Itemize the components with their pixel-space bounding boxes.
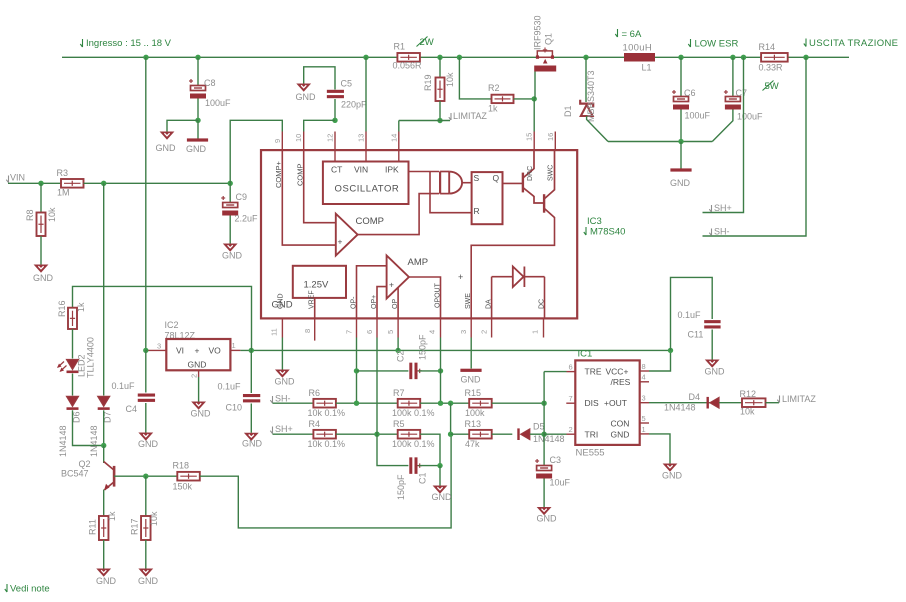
svg-text:USCITA TRAZIONE: USCITA TRAZIONE bbox=[809, 38, 898, 49]
svg-text:3: 3 bbox=[642, 394, 646, 403]
ground arrow pin 11 bbox=[276, 370, 289, 377]
wire D1 anode to ground bus bbox=[587, 116, 608, 142]
svg-text:IRF9530: IRF9530 bbox=[533, 15, 543, 50]
pin 5 stub bbox=[397, 318, 399, 337]
wire switch emitter to pin 3 bbox=[471, 217, 554, 318]
net label LOW ESR bbox=[688, 39, 690, 47]
svg-text:10: 10 bbox=[294, 134, 303, 142]
svg-text:R3: R3 bbox=[57, 168, 69, 178]
pin 11 stub bbox=[281, 318, 283, 337]
svg-text:GND: GND bbox=[138, 576, 159, 586]
wire 12V output net bbox=[240, 349, 670, 351]
wire IC2 input bbox=[146, 349, 148, 351]
ground arrow R11 bbox=[97, 569, 110, 576]
svg-text:GND: GND bbox=[242, 439, 263, 449]
svg-text:GND: GND bbox=[537, 514, 558, 524]
node pin6 row junction bbox=[374, 432, 379, 437]
wire D5 to trigger node bbox=[530, 433, 544, 435]
svg-text:R2: R2 bbox=[488, 83, 500, 93]
svg-text:S: S bbox=[474, 173, 480, 183]
resistor R6 bbox=[313, 399, 336, 408]
node C7 junction bbox=[730, 55, 735, 60]
pin 3 stub IC2 bbox=[147, 349, 166, 351]
svg-text:D5: D5 bbox=[533, 422, 545, 432]
wire crosslink verticals bbox=[450, 403, 452, 434]
wire top input/output bus bbox=[62, 56, 849, 58]
and gate bbox=[440, 172, 462, 194]
node R2 bus junction bbox=[457, 55, 462, 60]
wire R19 bottom to LIMITAZ net bbox=[439, 101, 441, 121]
pin 4 stub bbox=[440, 318, 442, 337]
node pin4 row junction bbox=[438, 401, 443, 406]
svg-text:1: 1 bbox=[531, 330, 540, 334]
pin 12 internal lead bbox=[334, 150, 336, 161]
svg-text:C3: C3 bbox=[550, 455, 562, 465]
svg-text:10k: 10k bbox=[445, 72, 455, 87]
svg-text:M78S40: M78S40 bbox=[590, 227, 625, 238]
node R14 output junction bbox=[803, 55, 808, 60]
wire to output ground bar bbox=[680, 142, 682, 169]
ground bar pin 3 bbox=[460, 369, 481, 372]
svg-text:VIN: VIN bbox=[10, 173, 25, 183]
wire D4 to R12 bbox=[719, 402, 742, 404]
ground arrow C3 bbox=[538, 508, 551, 515]
node pin5 12V junction bbox=[395, 348, 400, 353]
transistor Q1 IRF9530 bbox=[534, 48, 556, 72]
svg-text:LIMITAZ: LIMITAZ bbox=[453, 111, 487, 121]
wire crosslink to R13 bbox=[451, 433, 470, 435]
wire SH- sense bbox=[703, 57, 807, 236]
svg-text:+OUT: +OUT bbox=[604, 398, 627, 408]
pin 3 stub bbox=[470, 318, 472, 337]
pin 13 internal lead bbox=[365, 150, 367, 161]
svg-text:15: 15 bbox=[525, 133, 534, 141]
wire R7 to R15 bbox=[420, 402, 469, 404]
timer IC1 NE555 box bbox=[575, 360, 639, 445]
wire R16 feed from 12V bbox=[73, 286, 252, 350]
svg-text:100k 0.1%: 100k 0.1% bbox=[392, 439, 435, 449]
svg-text:DRC: DRC bbox=[527, 166, 534, 181]
pin 14 internal lead bbox=[398, 150, 400, 161]
wire R19 top bbox=[439, 57, 441, 77]
note Vedi note bbox=[5, 584, 7, 592]
svg-text:0.056R: 0.056R bbox=[393, 61, 423, 71]
wire R5 to C1 bbox=[420, 434, 440, 465]
wire C1 to ground bbox=[439, 466, 441, 486]
node ground bus junction bbox=[678, 139, 683, 144]
svg-text:GND: GND bbox=[222, 251, 243, 261]
wire input rail down to IC2 bbox=[145, 57, 147, 350]
svg-text:TLLY4400: TLLY4400 bbox=[86, 337, 96, 378]
svg-text:SH-: SH- bbox=[714, 227, 730, 237]
wire Q2 base row bbox=[114, 475, 177, 477]
capacitor C5 bbox=[327, 90, 344, 98]
pin 10 stub bbox=[303, 132, 305, 151]
node 12V C11 junction bbox=[668, 348, 673, 353]
wire D6 to Q2 collector node bbox=[73, 410, 104, 445]
svg-text:OSCILLATOR: OSCILLATOR bbox=[335, 184, 400, 195]
svg-text:L1: L1 bbox=[642, 63, 652, 73]
resistor R4 bbox=[313, 430, 336, 439]
wire LED2 to D6 bbox=[72, 374, 74, 396]
svg-text:DA: DA bbox=[486, 299, 493, 309]
svg-text:R18: R18 bbox=[173, 461, 190, 471]
svg-text:0.33R: 0.33R bbox=[759, 63, 784, 73]
net label SH+ right bbox=[709, 205, 711, 212]
svg-text:SWE: SWE bbox=[465, 293, 472, 309]
svg-text:GND: GND bbox=[611, 430, 630, 440]
node pin13 bus junction bbox=[363, 55, 368, 60]
wire D7 to Q2 collector node bbox=[103, 410, 105, 445]
svg-text:C9: C9 bbox=[236, 192, 248, 202]
wire C1 row bbox=[377, 434, 408, 465]
pin 1 stub 555 bbox=[640, 433, 649, 435]
node Q1 drain junction bbox=[532, 96, 537, 101]
node D1 bus junction bbox=[583, 55, 588, 60]
resistor R13 bbox=[469, 430, 492, 439]
wire TRE connection bbox=[544, 371, 566, 373]
svg-text:GND: GND bbox=[138, 439, 159, 449]
ground arrow IC2 bbox=[192, 402, 205, 409]
pin 2 stub 555 bbox=[567, 433, 576, 435]
wire C3 to ground bbox=[543, 479, 545, 508]
svg-text:VI: VI bbox=[176, 346, 184, 356]
node C8 ground junction bbox=[195, 118, 200, 123]
diode D6 1N4148 bbox=[67, 396, 79, 410]
svg-text:100uF: 100uF bbox=[205, 98, 231, 108]
svg-text:100uF: 100uF bbox=[737, 112, 763, 122]
ground arrow C11 bbox=[706, 360, 719, 367]
svg-text:GND: GND bbox=[275, 377, 296, 387]
svg-text:GND: GND bbox=[33, 273, 54, 283]
net label SH- right bbox=[709, 229, 711, 236]
svg-text:= 6A: = 6A bbox=[622, 29, 642, 40]
svg-text:OP: OP bbox=[392, 299, 399, 309]
wire pin5 riser bbox=[397, 338, 399, 351]
wire C4 to ground bbox=[145, 403, 147, 433]
capacitor C7 bbox=[724, 90, 741, 110]
wire R6 to R7 bbox=[336, 402, 398, 404]
pin 7 internal amp input bbox=[357, 266, 387, 319]
note current 6A bbox=[615, 29, 617, 37]
node input rail junction bbox=[143, 55, 148, 60]
capacitor C1 bbox=[409, 457, 422, 474]
diode D4 1N4148 bbox=[707, 397, 720, 409]
capacitor C11 bbox=[704, 320, 720, 328]
svg-text:10k: 10k bbox=[47, 207, 57, 222]
svg-text:GND: GND bbox=[461, 375, 482, 385]
svg-text:D1: D1 bbox=[563, 105, 573, 117]
svg-text:10uF: 10uF bbox=[550, 478, 571, 488]
node IC2 input junction bbox=[143, 348, 148, 353]
wire C5 ground bracket bbox=[304, 67, 335, 90]
pin 6 stub 555 bbox=[567, 371, 576, 373]
wire Q output bbox=[503, 182, 523, 184]
node crosslink bottom junction bbox=[448, 432, 453, 437]
pin 7 stub 555 bbox=[566, 402, 575, 404]
wire R12 to LIMITAZ bbox=[766, 402, 780, 404]
svg-text:7: 7 bbox=[345, 330, 354, 334]
svg-text:GND: GND bbox=[186, 144, 207, 154]
svg-text:7: 7 bbox=[569, 394, 573, 403]
svg-text:+: + bbox=[458, 272, 463, 282]
svg-text:C7: C7 bbox=[736, 88, 748, 98]
voltage regulator IC2 box bbox=[166, 339, 230, 370]
svg-text:/RES: /RES bbox=[611, 377, 631, 387]
svg-text:1k: 1k bbox=[76, 302, 86, 312]
pin 8 stub bbox=[314, 318, 316, 340]
svg-text:SH+: SH+ bbox=[714, 203, 732, 213]
pin 13 stub bbox=[365, 132, 367, 151]
wire C1 to ground node bbox=[418, 465, 440, 467]
capacitor C6 bbox=[672, 90, 689, 110]
pin 5 internal lead bbox=[397, 288, 399, 319]
svg-text:100uF: 100uF bbox=[685, 111, 711, 121]
resistor R1 bbox=[397, 53, 420, 62]
svg-text:GND: GND bbox=[156, 143, 177, 153]
svg-text:C2: C2 bbox=[396, 350, 406, 362]
svg-text:100k 0.1%: 100k 0.1% bbox=[392, 408, 435, 418]
resistor R11 bbox=[99, 516, 109, 540]
svg-text:10k: 10k bbox=[740, 407, 755, 417]
net label VIN bbox=[6, 176, 8, 183]
wire feedback loop bbox=[200, 434, 451, 528]
svg-text:1k: 1k bbox=[107, 511, 117, 521]
svg-text:1M: 1M bbox=[57, 188, 70, 198]
svg-text:C4: C4 bbox=[126, 404, 138, 414]
svg-text:9: 9 bbox=[273, 139, 282, 143]
pin 2 stub IC2 bbox=[198, 370, 200, 377]
net label USCITA TRAZIONE bbox=[804, 39, 806, 47]
wire SH+ sense bbox=[703, 57, 744, 212]
svg-text:Ingresso : 15 .. 18 V: Ingresso : 15 .. 18 V bbox=[86, 38, 172, 49]
capacitor C9 bbox=[229, 183, 231, 202]
wire C11 loop bbox=[671, 277, 713, 350]
pin 2 internal lead bbox=[491, 277, 493, 319]
wire trigger to TRI pin bbox=[544, 433, 566, 435]
svg-text:2: 2 bbox=[190, 374, 199, 378]
pin 16 stub bbox=[554, 132, 556, 151]
wire pin6 riser bbox=[376, 338, 378, 435]
wire VCC to 12V net bbox=[649, 350, 671, 371]
svg-text:220pF: 220pF bbox=[341, 100, 367, 110]
wire R11 to ground bbox=[103, 540, 105, 569]
svg-text:Vedi note: Vedi note bbox=[10, 584, 50, 595]
svg-text:R7: R7 bbox=[393, 388, 405, 398]
svg-text:R15: R15 bbox=[465, 388, 482, 398]
wire C9 to ground bbox=[229, 216, 231, 244]
diode LED2 TLLY4400 bbox=[67, 360, 79, 374]
svg-text:100uH: 100uH bbox=[623, 43, 653, 54]
pin 7 stub bbox=[356, 318, 358, 337]
pin 12 stub bbox=[334, 132, 336, 151]
pin 1 stub bbox=[543, 318, 545, 337]
wire C11 to ground bbox=[711, 330, 713, 360]
wire R17 to ground bbox=[145, 540, 147, 569]
svg-text:5: 5 bbox=[386, 330, 395, 334]
svg-text:12: 12 bbox=[326, 134, 335, 142]
svg-text:+: + bbox=[338, 237, 343, 247]
svg-text:1.25V: 1.25V bbox=[304, 280, 329, 291]
svg-text:SH-: SH- bbox=[275, 394, 291, 404]
node pin7 C2 junction bbox=[354, 368, 359, 373]
svg-text:R8: R8 bbox=[25, 209, 35, 221]
wire pin 3 to ground bar bbox=[470, 338, 472, 369]
wire threshold chain vertical bbox=[543, 372, 545, 465]
resistor R12 bbox=[742, 398, 766, 407]
ground arrow R8 bbox=[35, 265, 48, 272]
pin 1 stub IC2 bbox=[230, 349, 240, 351]
resistor R5 bbox=[398, 430, 421, 439]
pin 5 stub 555 bbox=[640, 422, 649, 424]
svg-text:LOW ESR: LOW ESR bbox=[695, 39, 739, 50]
svg-text:CON: CON bbox=[611, 419, 630, 429]
svg-text:1N4148: 1N4148 bbox=[664, 403, 696, 413]
transistor output internal bbox=[544, 150, 554, 217]
svg-text:LIMITAZ: LIMITAZ bbox=[782, 394, 816, 404]
ground arrow R17 bbox=[140, 569, 153, 576]
pin 8 stub 555 bbox=[640, 370, 649, 372]
svg-text:GND: GND bbox=[278, 293, 285, 309]
svg-text:16: 16 bbox=[546, 133, 555, 141]
svg-text:GND: GND bbox=[296, 92, 317, 102]
wire pin9 branch bbox=[230, 120, 282, 183]
svg-text:150pF: 150pF bbox=[418, 334, 428, 360]
node SH+ sense junction bbox=[741, 55, 746, 60]
wire C5 bottom bbox=[334, 99, 336, 120]
svg-text:3: 3 bbox=[157, 342, 161, 351]
ground arrow left of C8 bbox=[161, 132, 174, 139]
pin 10 internal comparator input bbox=[304, 150, 336, 223]
label M78S40 bbox=[584, 227, 586, 235]
svg-text:5: 5 bbox=[642, 414, 646, 423]
wire pin15 riser bbox=[533, 99, 535, 132]
wire SH+ row bbox=[273, 433, 314, 435]
wire pin14 riser bbox=[398, 121, 400, 132]
pin 6 internal amp input bbox=[377, 287, 387, 319]
svg-text:4: 4 bbox=[428, 330, 437, 334]
wire C7 top bbox=[732, 57, 734, 96]
svg-text:IC3: IC3 bbox=[587, 216, 602, 227]
svg-text:8: 8 bbox=[642, 362, 646, 371]
wire SH- row bbox=[273, 402, 314, 404]
svg-text:DC: DC bbox=[539, 299, 546, 309]
ground bar output bbox=[670, 168, 691, 171]
pin 9 stub bbox=[281, 132, 283, 151]
svg-text:GND: GND bbox=[432, 492, 453, 502]
diode D5 1N4148 bbox=[517, 428, 530, 440]
svg-text:R5: R5 bbox=[393, 419, 405, 429]
svg-text:6: 6 bbox=[365, 330, 374, 334]
wire to ground bar below C8 bbox=[197, 120, 199, 138]
svg-text:GND: GND bbox=[188, 360, 207, 370]
node Q2 collector junction bbox=[101, 443, 106, 448]
capacitor C8 bbox=[189, 79, 206, 99]
svg-text:COMP+: COMP+ bbox=[274, 161, 283, 189]
net label LIMITAZ right bbox=[777, 396, 779, 403]
resistor R15 bbox=[469, 399, 492, 408]
resistor R14 bbox=[761, 53, 788, 62]
pin 2 stub bbox=[491, 318, 493, 337]
wire pin4 riser bbox=[440, 338, 442, 404]
wire 555 ground bbox=[649, 434, 670, 464]
svg-text:1N4148: 1N4148 bbox=[58, 425, 68, 457]
svg-text:1N4148: 1N4148 bbox=[89, 425, 99, 457]
pin 8 internal lead bbox=[314, 298, 316, 319]
wire R2 to Q1 drain bbox=[514, 98, 535, 100]
resistor R7 bbox=[398, 399, 421, 408]
transistor Q2 BC547 bbox=[104, 446, 114, 517]
svg-text:R19: R19 bbox=[423, 74, 433, 91]
svg-text:R17: R17 bbox=[130, 518, 140, 535]
node C2 pin4 junction bbox=[438, 368, 443, 373]
svg-text:2.2uF: 2.2uF bbox=[235, 214, 259, 224]
wire C6 bottom bbox=[680, 110, 682, 142]
diode D7 1N4148 bbox=[98, 396, 110, 410]
svg-text:VREF: VREF bbox=[309, 290, 316, 309]
svg-text:D4: D4 bbox=[689, 392, 701, 402]
svg-text:1N4148: 1N4148 bbox=[533, 434, 565, 444]
wire pin13 riser bbox=[365, 57, 367, 131]
svg-text:1: 1 bbox=[232, 341, 236, 350]
wire IC2 pin2 to ground bbox=[198, 377, 200, 402]
svg-text:C5: C5 bbox=[341, 79, 353, 89]
wire pin 11 to ground bbox=[281, 338, 283, 370]
ground arrow C9 bbox=[224, 244, 237, 251]
svg-text:10k 0.1%: 10k 0.1% bbox=[308, 408, 346, 418]
svg-text:10k: 10k bbox=[149, 511, 159, 526]
svg-text:SH+: SH+ bbox=[275, 424, 293, 434]
wire VIN rail to D7 bbox=[103, 183, 105, 395]
net label LIMITAZ top bbox=[449, 113, 451, 120]
wire R16 to LED2 bbox=[72, 329, 74, 359]
flip-flop SR latch bbox=[472, 172, 503, 224]
svg-text:MBRS340T3: MBRS340T3 bbox=[586, 70, 596, 122]
ground arrow C4 bbox=[140, 433, 153, 440]
svg-text:COMP: COMP bbox=[356, 216, 385, 227]
node LIMITAZ junction bbox=[437, 118, 442, 123]
svg-text:0.1uF: 0.1uF bbox=[678, 310, 702, 320]
wire C8 top bbox=[197, 57, 199, 85]
oscillator block bbox=[323, 162, 409, 205]
svg-text:Q1: Q1 bbox=[544, 33, 554, 45]
svg-text:C8: C8 bbox=[204, 78, 216, 88]
comparator COMP triangle bbox=[336, 214, 358, 256]
svg-text:Q: Q bbox=[493, 173, 500, 183]
wire C8 bottom to ground node bbox=[197, 99, 199, 121]
wire C2 to pin4 riser bbox=[418, 370, 440, 372]
svg-text:R6: R6 bbox=[309, 388, 321, 398]
wire output ground bus bbox=[608, 141, 712, 143]
wire R2 branch bbox=[459, 57, 491, 99]
wire R15 to threshold node bbox=[492, 402, 544, 404]
wire Q1 drain down bbox=[534, 72, 536, 99]
svg-text:C10: C10 bbox=[226, 403, 243, 413]
ground arrow C10 bbox=[245, 433, 258, 440]
net label SH- left bbox=[270, 396, 272, 403]
svg-text:VIN: VIN bbox=[354, 165, 368, 175]
svg-text:2: 2 bbox=[569, 425, 573, 434]
pin 9 internal comparator input bbox=[282, 150, 336, 245]
resistor R2 bbox=[492, 95, 514, 103]
svg-text:R13: R13 bbox=[465, 419, 482, 429]
node base junction bbox=[143, 474, 148, 479]
node C9 junction bbox=[228, 181, 233, 186]
diode internal bbox=[492, 267, 545, 288]
svg-text:DIS: DIS bbox=[585, 398, 600, 408]
resistor R16 bbox=[68, 308, 77, 329]
wire gate output bbox=[462, 182, 471, 184]
